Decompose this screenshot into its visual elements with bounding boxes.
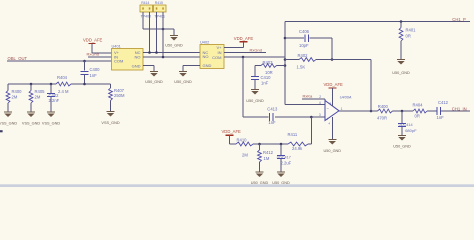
svg-text:R415: R415 (155, 1, 163, 5)
svg-text:R411: R411 (288, 132, 298, 137)
capacitor C414 680pF (shunt) (401, 111, 403, 123)
svg-text:1.5K: 1.5K (297, 65, 306, 70)
ground U50_GND under C417 (277, 171, 285, 173)
wire RxGnd stub to U401 pin 2 (88, 56, 112, 58)
resistor R410 2M (bias) (236, 142, 253, 146)
node output filter junction (401, 110, 404, 113)
ground VSS_GND under C402 (47, 111, 55, 113)
svg-text:IN: IN (218, 50, 222, 55)
wire pin3 node down to R411 (310, 117, 312, 144)
ground VSS_GND under R407 (107, 111, 115, 113)
svg-text:2.4 M: 2.4 M (58, 89, 69, 94)
wire TP400 pin2 down (149, 12, 151, 53)
svg-text:VDD_AFE: VDD_AFE (83, 38, 103, 43)
svg-text:R401: R401 (406, 28, 417, 33)
node row junctions (148, 51, 151, 54)
svg-text:CH1_P: CH1_P (452, 17, 466, 22)
svg-text:C412: C412 (438, 100, 449, 105)
svg-text:2.2nF: 2.2nF (49, 98, 60, 103)
op-amp U400A (325, 101, 339, 121)
capacitor C412 1nF (series) (436, 107, 438, 115)
resistor R403 10R (snubber) (255, 65, 261, 67)
svg-text:COM: COM (212, 55, 221, 60)
svg-text:VSS_GND: VSS_GND (42, 122, 60, 126)
svg-text:VSS_GND: VSS_GND (22, 122, 40, 126)
svg-text:2M: 2M (35, 95, 41, 100)
capacitor C402 2.2nF (50, 84, 52, 93)
wire non-inverting input from C413 (243, 116, 268, 118)
resistor R404 0R (output) (413, 109, 427, 113)
node rail junctions (30, 83, 33, 86)
wire VDD_AFE to op-amp V+ pin 8 (331, 88, 333, 106)
svg-text:0ΩC414: 0ΩC414 (399, 123, 413, 127)
svg-text:CH1_IN: CH1_IN (452, 106, 467, 111)
svg-text:VSS_GND: VSS_GND (0, 122, 17, 126)
svg-text:C406: C406 (299, 29, 310, 34)
svg-text:COM: COM (114, 59, 123, 64)
wire U402 V+ to VDD_AFE (224, 47, 244, 49)
svg-text:R412: R412 (263, 150, 274, 155)
node pin3 junction (310, 116, 313, 119)
wire C412 to CH1_IN (441, 110, 471, 112)
svg-text:RxGnd: RxGnd (250, 48, 262, 53)
svg-text:R402: R402 (298, 53, 309, 58)
wire feedback to output (370, 60, 372, 112)
svg-text:R400: R400 (378, 104, 389, 109)
wire row U401-NO to U402-NO (143, 56, 200, 58)
svg-text:680pF: 680pF (405, 128, 417, 133)
resistor R400 470R (output) (378, 109, 393, 113)
node bias junction R412 (258, 143, 261, 146)
wire RxGnd stub from U402 IN (224, 52, 266, 54)
resistor R402 1.5K (feedback) (285, 59, 299, 61)
svg-text:U50_GND: U50_GND (393, 145, 411, 149)
svg-text:GND: GND (203, 63, 212, 68)
ground U50_GND under C414 (398, 135, 406, 137)
svg-text:0R: 0R (415, 113, 420, 118)
ground U50_GND under U401 (150, 71, 158, 73)
svg-text:1nF: 1nF (261, 80, 269, 85)
ground U50_GND under U402 (179, 71, 187, 73)
wire op-amp output (339, 110, 378, 112)
svg-text:U50_GND: U50_GND (324, 149, 342, 153)
wire bias row (230, 143, 237, 145)
svg-text:RxGnd: RxGnd (87, 51, 99, 56)
wire top output net (285, 21, 470, 23)
testpoint jumper TP401 (154, 5, 167, 12)
svg-text:4: 4 (319, 101, 321, 105)
svg-text:U402: U402 (200, 40, 209, 45)
wire row U401-NC to U402-NC (143, 52, 200, 54)
resistor R401 0R (to ground, top right) (400, 22, 402, 28)
svg-text:1nF: 1nF (90, 73, 98, 78)
ground U50_GND (top middle) (170, 35, 178, 37)
node junction R401 tap (400, 20, 403, 23)
wire RxKa stub (302, 98, 325, 100)
svg-text:1: 1 (341, 107, 343, 111)
svg-text:R400: R400 (12, 89, 23, 94)
ground U50_GND under R401 (397, 59, 405, 61)
svg-text:GND: GND (132, 64, 141, 69)
capacitor C413 1nF (268, 113, 270, 121)
wire lower divider rail (8, 83, 56, 85)
wire U401 GND pin (143, 65, 154, 67)
wire op-amp V- pin 4 to ground (331, 117, 333, 140)
wire OBL_OUT to U401 pin 3 (7, 60, 112, 62)
sheet border tick (left) (0, 130, 3, 132)
svg-text:3: 3 (319, 113, 321, 117)
resistor R404 2.4M (on rail) (56, 82, 71, 86)
wire U402 GND pin (183, 65, 200, 67)
node on input vertical (284, 37, 287, 40)
wire TP400 pin1 to ground (142, 12, 144, 29)
svg-text:U50_GND: U50_GND (246, 99, 264, 103)
svg-text:RxKa: RxKa (303, 93, 314, 98)
capacitor C400 1nF (84, 61, 86, 70)
capacitor C410 1nF (snubber) (254, 66, 256, 77)
wire feedback vertical (input node) (284, 22, 286, 105)
resistor R411 24.9k (bias) (288, 142, 308, 146)
svg-text:R404: R404 (413, 103, 424, 108)
svg-text:U50_GND: U50_GND (165, 44, 183, 48)
svg-text:2: 2 (319, 95, 321, 99)
svg-text:1nF: 1nF (437, 115, 445, 120)
svg-text:U50_GND: U50_GND (174, 80, 192, 84)
ground VSS_GND under R400 (4, 111, 12, 113)
capacitor C406 10pF (feedback) (285, 37, 304, 39)
wire inverting input (pin 4) (285, 104, 325, 106)
svg-text:U400A: U400A (340, 94, 352, 99)
svg-text:C410: C410 (261, 75, 272, 80)
svg-text:470R: 470R (377, 116, 387, 121)
svg-text:R410: R410 (237, 137, 248, 142)
svg-text:VDD_AFE: VDD_AFE (324, 82, 344, 87)
svg-text:R414: R414 (141, 1, 149, 5)
svg-text:R407: R407 (114, 88, 125, 93)
wire R400 to R404 (393, 110, 414, 112)
node junction on OBL_OUT wire (83, 60, 86, 63)
node COM junction (242, 56, 245, 59)
resistor R407 250M (110, 84, 112, 88)
svg-text:NO: NO (135, 54, 141, 59)
wire down to C413 (242, 57, 244, 117)
ground U50_GND under R412 (256, 171, 264, 173)
svg-text:0ΩC417: 0ΩC417 (277, 155, 291, 159)
resistor R405 2M (30, 84, 32, 91)
svg-text:OBL_OUT: OBL_OUT (8, 56, 28, 61)
svg-text:C400: C400 (90, 67, 101, 72)
svg-text:250M: 250M (114, 93, 125, 98)
svg-text:24.9k: 24.9k (292, 146, 303, 151)
ground U50_GND under op-amp (328, 139, 336, 141)
svg-text:1nF: 1nF (268, 120, 276, 125)
svg-text:U401: U401 (112, 44, 121, 49)
node TP ground junction (162, 28, 165, 31)
svg-text:R405: R405 (35, 89, 46, 94)
node row junction (162, 56, 165, 59)
svg-text:1M: 1M (264, 156, 270, 161)
svg-text:U50_GND: U50_GND (145, 80, 163, 84)
svg-text:2.2uF: 2.2uF (281, 160, 292, 165)
op-amp buffer U401 (112, 49, 144, 71)
sheet bottom border band (0, 184, 474, 187)
svg-text:VDD_AFE: VDD_AFE (234, 36, 254, 41)
svg-text:0R: 0R (406, 34, 411, 39)
wire VDD_AFE to U401 pin V+ (91, 43, 93, 53)
testpoint jumper TP400 (140, 5, 153, 12)
svg-text:NO: NO (203, 54, 209, 59)
svg-text:2M: 2M (242, 153, 248, 158)
resistor R400 2M (far left) (7, 84, 9, 91)
svg-text:2M: 2M (12, 95, 18, 100)
svg-text:U50_GND: U50_GND (392, 71, 410, 75)
svg-text:10pF: 10pF (299, 43, 309, 48)
ground U50_GND under C410 (251, 89, 259, 91)
wire C406 right leg (331, 38, 333, 60)
wire TP401 pin2 down (162, 12, 164, 57)
node output junction (370, 110, 373, 113)
resistor R412 1M (bias shunt) (259, 144, 261, 150)
svg-text:R404: R404 (57, 75, 68, 80)
wire VDD_AFE to bias divider (229, 135, 231, 144)
wire U402 COM to feedback node (224, 56, 285, 58)
node feedback right junction (331, 58, 334, 61)
svg-text:VDD_AFE: VDD_AFE (222, 129, 242, 134)
svg-text:VSS_GND: VSS_GND (101, 121, 119, 125)
op-amp buffer U402 (200, 45, 224, 69)
svg-text:R403: R403 (263, 60, 274, 65)
node bias junction C417 (280, 143, 283, 146)
wire C413 to op-amp pin 3 (275, 116, 325, 118)
ground VSS_GND under R405 (27, 111, 35, 113)
svg-text:C413: C413 (267, 106, 278, 111)
wire R404 to C412 (427, 110, 437, 112)
wire TP401 pin1 down (156, 12, 158, 53)
capacitor C417 2.2uF (bias shunt) (280, 144, 282, 155)
